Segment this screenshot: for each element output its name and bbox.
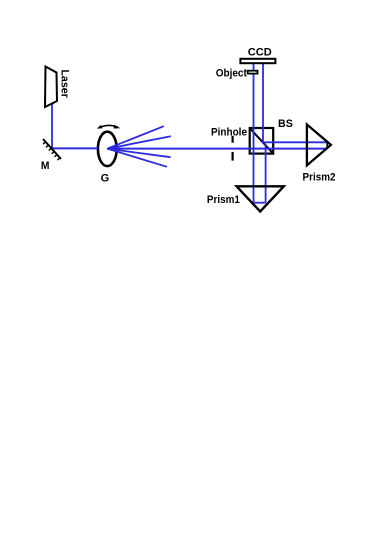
wire: beam mirror M to lens G xyxy=(52,147,98,149)
CCD detector xyxy=(240,59,275,63)
wire: main horizontal beam lens G to Prism2 xyxy=(107,148,327,150)
label M xyxy=(41,160,50,172)
label Prism2 xyxy=(303,172,336,184)
svg-text:BS: BS xyxy=(278,118,293,130)
wire: beam connector inside Prism1 xyxy=(254,202,266,204)
label Prism1 xyxy=(207,194,240,206)
wire: diverging ray 3 (shallow down) from lens G xyxy=(107,149,170,158)
pinhole (dashed aperture) xyxy=(232,136,234,161)
label Pinhole xyxy=(211,126,247,138)
label BS xyxy=(278,118,293,130)
laser source xyxy=(45,67,57,108)
wire: beam connector inside Prism2 xyxy=(327,142,331,149)
label CCD xyxy=(248,46,272,58)
label Laser xyxy=(59,69,71,98)
wire: diverging ray 2 (shallow up) from lens G xyxy=(107,136,171,148)
svg-text:Laser: Laser xyxy=(59,69,71,98)
object sample xyxy=(248,71,258,74)
svg-text:M: M xyxy=(41,160,50,172)
wire: vertical beam BS down to Prism1 (right) xyxy=(265,144,267,203)
wire: vertical beam CCD to Prism1 (left) xyxy=(253,64,255,203)
svg-text:G: G xyxy=(101,172,110,184)
svg-text:Object: Object xyxy=(216,67,247,79)
wire: diverging ray 4 (steep down) from lens G xyxy=(107,149,167,167)
prism Prism2 (right, apex right) xyxy=(307,125,331,166)
mirror M xyxy=(43,139,61,160)
svg-text:Pinhole: Pinhole xyxy=(211,126,247,138)
rotation arrow above G xyxy=(97,125,121,129)
wire: beam laser to mirror M xyxy=(51,103,53,148)
wire: return horizontal beam BS to Prism2 xyxy=(263,141,328,143)
lens G (rotating ground glass) xyxy=(98,132,117,166)
svg-text:Prism2: Prism2 xyxy=(303,172,336,184)
wire: vertical beam BS up to CCD (right) xyxy=(262,64,264,143)
svg-text:Prism1: Prism1 xyxy=(207,194,240,206)
label G xyxy=(101,172,110,184)
prism Prism1 (bottom, apex down) xyxy=(237,186,284,211)
label Object xyxy=(216,67,247,79)
beamsplitter BS cube xyxy=(250,128,274,154)
svg-text:CCD: CCD xyxy=(248,46,272,58)
wire: diverging ray 1 (steep up) from lens G xyxy=(107,126,164,149)
